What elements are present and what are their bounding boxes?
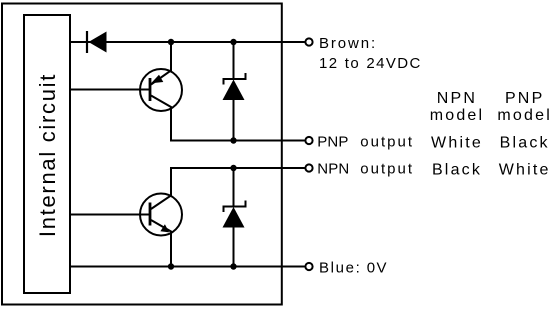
label NPN output — [317, 161, 414, 178]
table header PNP model — [497, 90, 550, 124]
svg-text:NPN: NPN — [437, 90, 477, 107]
wire base of Q1 from internal circuit — [70, 89, 150, 91]
wire brown supply line — [70, 41, 305, 43]
svg-text:0V: 0V — [367, 260, 388, 277]
outer sensor case box — [2, 4, 282, 305]
wire base of Q2 from internal circuit — [70, 214, 150, 216]
label Brown: 12 to 24VDC — [319, 35, 422, 72]
transistor Q1 PNP — [140, 42, 182, 111]
svg-text:Black: Black — [432, 162, 482, 179]
terminal NPN output — [305, 164, 312, 171]
terminal brown — [305, 38, 312, 45]
junction dot PNP line/ZD1 — [230, 137, 236, 143]
svg-text:Internal circuit: Internal circuit — [35, 73, 60, 237]
diode D1 reverse-protection — [87, 31, 107, 53]
svg-text:output: output — [360, 161, 414, 178]
svg-text:PNP: PNP — [505, 90, 545, 107]
svg-text:Brown:: Brown: — [319, 35, 377, 52]
svg-text:model: model — [430, 107, 485, 124]
wire blue 0V line — [70, 266, 305, 268]
svg-text:12 to 24VDC: 12 to 24VDC — [319, 55, 422, 72]
table header NPN model — [430, 90, 485, 124]
svg-text:PNP: PNP — [317, 134, 348, 151]
junction dot brown/ZD1 — [230, 39, 236, 45]
wire Q1 collector to PNP output — [151, 96, 305, 141]
junction dot blue/ZD2 — [230, 263, 236, 269]
internal circuit box — [24, 15, 70, 293]
svg-text:White: White — [431, 135, 483, 152]
svg-text:NPN: NPN — [317, 161, 349, 178]
label PNP output — [317, 134, 414, 151]
terminal blue — [305, 263, 312, 270]
svg-text:output: output — [360, 134, 414, 151]
svg-text:model: model — [497, 107, 550, 124]
zener diode ZD1 — [223, 42, 246, 141]
junction dot brown/Q1 emitter — [168, 39, 174, 45]
transistor Q2 NPN — [140, 168, 305, 267]
junction dot NPN line/ZD2 — [230, 165, 236, 171]
svg-text:White: White — [499, 162, 550, 179]
label Blue: 0V — [319, 260, 388, 277]
svg-text:Blue:: Blue: — [319, 260, 361, 277]
zener diode ZD2 — [223, 168, 246, 267]
terminal PNP output — [305, 137, 312, 144]
svg-text:Black: Black — [500, 135, 550, 152]
junction dot blue/Q2 emitter — [168, 263, 174, 269]
